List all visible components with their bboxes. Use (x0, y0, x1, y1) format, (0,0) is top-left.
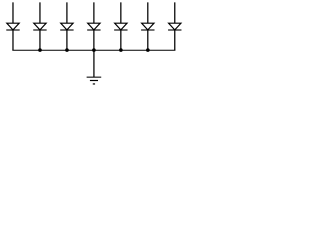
diode D5 (114, 2, 127, 50)
diode D4 (87, 2, 100, 50)
diode D7 (168, 2, 181, 50)
junction dot at D3 (65, 48, 69, 52)
diode D6 (141, 2, 154, 50)
junction dot at D4 (92, 48, 96, 52)
diode D3 (60, 2, 73, 50)
junction dot at D5 (119, 48, 123, 52)
diode D2 (33, 2, 46, 50)
diode D1 (6, 2, 19, 50)
junction dot at D6 (146, 48, 150, 52)
wire to ground (93, 50, 95, 77)
wire ground bus (12, 49, 175, 51)
ground (87, 77, 102, 84)
junction dot at D2 (38, 48, 42, 52)
